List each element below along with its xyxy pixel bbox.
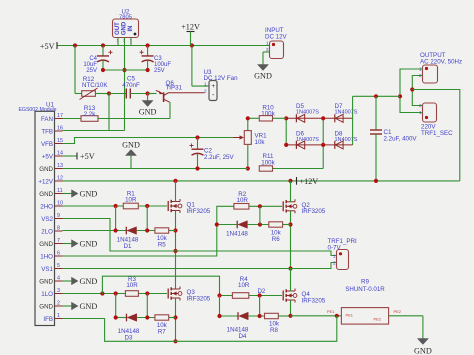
svg-text:1N4007S: 1N4007S	[335, 110, 358, 116]
svg-text:12: 12	[57, 176, 63, 182]
svg-text:GND: GND	[39, 241, 53, 248]
svg-text:16: 16	[57, 126, 63, 132]
svg-text:2: 2	[204, 88, 207, 93]
svg-text:GND: GND	[122, 21, 128, 35]
svg-text:6: 6	[57, 251, 60, 257]
svg-text:FAN: FAN	[41, 116, 53, 123]
svg-text:GND: GND	[39, 191, 53, 198]
svg-text:IRF3205: IRF3205	[187, 208, 211, 215]
svg-text:GND: GND	[139, 108, 157, 117]
svg-text:+12V: +12V	[300, 177, 319, 186]
svg-text:10R: 10R	[126, 282, 138, 289]
svg-text:DC 12V: DC 12V	[265, 33, 288, 40]
svg-text:+12V: +12V	[181, 23, 200, 32]
svg-text:+5V: +5V	[42, 153, 54, 160]
svg-text:GND: GND	[39, 278, 53, 285]
svg-text:GND: GND	[80, 277, 98, 286]
svg-text:100k: 100k	[261, 111, 275, 118]
svg-text:GND: GND	[80, 240, 98, 249]
svg-text:R7: R7	[158, 329, 166, 336]
svg-text:IRF3205: IRF3205	[187, 295, 211, 302]
svg-text:1N4148: 1N4148	[226, 231, 248, 238]
svg-text:DC 12V Fan: DC 12V Fan	[204, 75, 239, 82]
svg-text:14: 14	[57, 151, 63, 157]
svg-text:2HO: 2HO	[40, 203, 53, 210]
svg-text:11: 11	[57, 188, 63, 194]
svg-text:10R: 10R	[237, 197, 249, 204]
svg-text:OUT: OUT	[115, 22, 121, 35]
svg-text:13: 13	[57, 163, 63, 169]
svg-text:17: 17	[57, 113, 63, 119]
svg-text:D1: D1	[124, 243, 132, 250]
svg-text:IRF3205: IRF3205	[302, 208, 326, 215]
svg-text:PE2: PE2	[394, 309, 401, 314]
svg-text:D4: D4	[238, 333, 246, 340]
svg-text:2.2uF, 25V: 2.2uF, 25V	[204, 154, 234, 161]
svg-text:25V: 25V	[154, 68, 165, 74]
svg-text:0-7V: 0-7V	[328, 244, 342, 251]
svg-text:PE2: PE2	[374, 316, 381, 321]
svg-text:GND: GND	[414, 347, 432, 355]
svg-text:VFB: VFB	[41, 141, 53, 148]
svg-text:470nF: 470nF	[122, 82, 140, 89]
svg-text:+5V: +5V	[80, 152, 95, 161]
svg-text:TIP31: TIP31	[166, 85, 183, 92]
svg-text:1: 1	[204, 82, 207, 87]
svg-text:+5V: +5V	[40, 42, 55, 51]
svg-text:+12V: +12V	[38, 178, 53, 185]
svg-text:1N4007S: 1N4007S	[296, 110, 319, 116]
svg-text:D3: D3	[125, 334, 133, 341]
svg-text:IN: IN	[128, 26, 134, 32]
svg-text:8: 8	[57, 226, 60, 232]
svg-text:R8: R8	[270, 327, 278, 334]
svg-text:IFB: IFB	[43, 316, 53, 323]
svg-text:PE1: PE1	[346, 312, 353, 317]
svg-text:IRF3205: IRF3205	[302, 297, 326, 304]
svg-text:10: 10	[57, 201, 63, 207]
svg-text:EGS002 Module: EGS002 Module	[18, 107, 56, 113]
svg-text:1N4007S: 1N4007S	[296, 137, 319, 143]
svg-text:+: +	[211, 83, 215, 90]
svg-text:GND: GND	[80, 302, 98, 311]
svg-text:7805: 7805	[119, 15, 132, 21]
svg-text:GND: GND	[122, 141, 140, 150]
svg-text:VS2: VS2	[41, 216, 53, 223]
svg-text:2LO: 2LO	[41, 228, 53, 235]
svg-text:D2: D2	[257, 288, 265, 295]
svg-text:1HO: 1HO	[40, 253, 53, 260]
svg-text:TFB: TFB	[41, 128, 53, 135]
svg-text:2: 2	[57, 301, 60, 307]
svg-text:VS1: VS1	[41, 266, 53, 273]
svg-text:3: 3	[57, 288, 60, 294]
svg-text:2.2uF, 400V: 2.2uF, 400V	[384, 136, 418, 143]
svg-text:1: 1	[333, 253, 336, 258]
svg-text:GND: GND	[80, 190, 98, 199]
svg-text:R6: R6	[272, 236, 280, 243]
svg-text:10R: 10R	[238, 282, 250, 289]
svg-text:SHUNT-0.01R: SHUNT-0.01R	[345, 286, 385, 293]
svg-text:GND: GND	[39, 303, 53, 310]
svg-text:10R: 10R	[125, 197, 137, 204]
svg-text:4: 4	[57, 276, 60, 282]
svg-text:5: 5	[57, 263, 60, 269]
svg-text:GND: GND	[39, 166, 53, 173]
svg-text:7: 7	[57, 238, 60, 244]
svg-text:25V: 25V	[86, 68, 97, 74]
svg-text:1N4007S: 1N4007S	[335, 137, 358, 143]
svg-text:R9: R9	[361, 279, 369, 286]
svg-text:9: 9	[57, 213, 60, 219]
svg-text:R5: R5	[158, 241, 166, 248]
svg-text:GND: GND	[254, 72, 272, 81]
svg-text:NTC/10K: NTC/10K	[82, 82, 108, 89]
svg-text:1: 1	[266, 41, 269, 46]
svg-text:10k: 10k	[255, 139, 266, 146]
svg-text:2.2k: 2.2k	[84, 111, 97, 118]
svg-text:TRF1_SEC: TRF1_SEC	[421, 130, 453, 137]
svg-text:PE1: PE1	[327, 309, 334, 314]
svg-text:2: 2	[333, 261, 336, 266]
svg-text:1LO: 1LO	[41, 291, 53, 298]
svg-text:15: 15	[57, 138, 63, 144]
svg-text:1: 1	[57, 313, 60, 319]
